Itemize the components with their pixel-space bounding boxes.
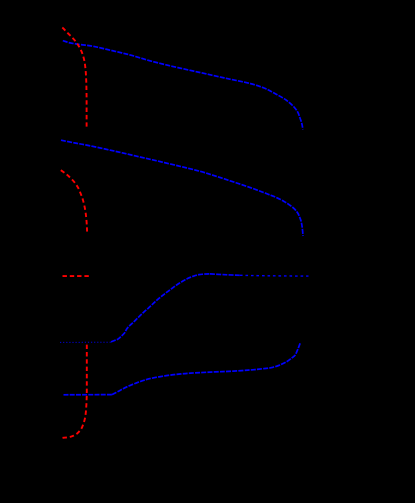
curve: bottom unstable branch (red dashed) rising to fold at x=87	[63, 345, 87, 438]
curve: upper unstable branch (red dashed), top panel	[62, 28, 86, 130]
curve: bottom stable branch rising to fold at x=301 (blue)	[112, 342, 301, 394]
curve: second unstable branch (red dashed)	[61, 170, 87, 231]
curve: short red dashed branch segment near x=62..89, y=276	[63, 275, 90, 277]
curve: bottom stable branch flat tail (blue dashes)	[64, 394, 113, 396]
curve: rising S-shaped stable branch (blue)	[111, 274, 210, 342]
curve: plateau of S-branch (blue dashes)	[210, 274, 240, 275]
curve: lower-left dotted blue branch tail (sparse samples)	[60, 341, 111, 343]
curve: upper stable branch (blue dash-dot), top panel	[63, 41, 303, 130]
curve: sparse dotted continuation of plateau (blue)	[240, 274, 309, 277]
curve: second stable branch (blue dash-dot)	[61, 140, 303, 236]
